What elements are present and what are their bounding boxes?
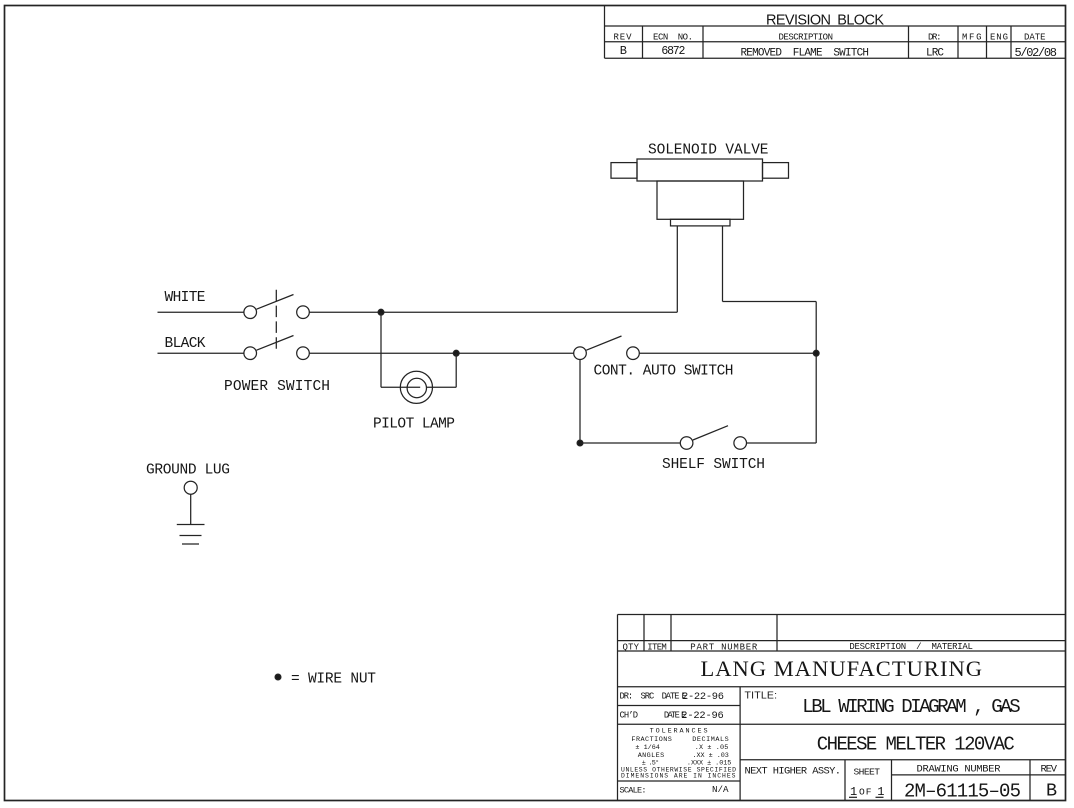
svg-text:.X ± .05: .X ± .05: [695, 744, 729, 752]
svg-text:DESCRIPTION: DESCRIPTION: [779, 33, 834, 43]
svg-text:DATE: DATE: [664, 710, 680, 720]
wire: right vertical bus: [815, 302, 817, 444]
svg-text:PART NUMBER: PART NUMBER: [690, 643, 758, 653]
svg-text:GROUND LUG: GROUND LUG: [146, 463, 230, 479]
scale row: [620, 784, 729, 796]
wire: shelf line left segment: [580, 442, 680, 444]
wire: WHITE line left segment: [158, 311, 245, 313]
revision block header row text: [614, 33, 1046, 43]
svg-text:DR:: DR:: [928, 33, 942, 43]
svg-text:LRC: LRC: [926, 48, 944, 60]
svg-text:REMOVED FLAME SWITCH: REMOVED FLAME SWITCH: [741, 48, 870, 60]
parts list header text: [623, 642, 973, 653]
svg-text:PILOT LAMP: PILOT LAMP: [373, 416, 455, 432]
svg-text:DR: SRC DATE: DR: SRC DATE: [620, 691, 680, 701]
wire: ground lug lead: [190, 494, 192, 524]
svg-text:FRACTIONS: FRACTIONS: [631, 736, 672, 744]
wire: BLACK line left segment: [158, 352, 245, 354]
wire nut junction on WHITE line: [378, 309, 384, 315]
svg-text:DIMENSIONS ARE IN INCHES: DIMENSIONS ARE IN INCHES: [621, 772, 736, 779]
svg-text:LANG MANUFACTURING: LANG MANUFACTURING: [701, 656, 983, 681]
shelf switch S3: [680, 426, 746, 450]
ground symbol: [177, 525, 205, 545]
cont. auto switch S2: [574, 336, 640, 360]
svg-text:NEXT HIGHER ASSY.: NEXT HIGHER ASSY.: [745, 765, 842, 777]
title row: [745, 689, 1021, 755]
svg-text:B: B: [1046, 781, 1057, 802]
title block grid: [618, 615, 1066, 801]
wire: WHITE line right segment: [309, 311, 677, 313]
svg-text:LBL WIRING DIAGRAM , GAS: LBL WIRING DIAGRAM , GAS: [802, 696, 1021, 718]
svg-text:TITLE:: TITLE:: [745, 689, 778, 701]
svg-text:B: B: [620, 44, 627, 58]
tolerances block text: [621, 727, 736, 779]
pilot lamp DS1: [400, 371, 432, 403]
svg-text:CHEESE MELTER 120VAC: CHEESE MELTER 120VAC: [817, 733, 1015, 755]
wire: drop from cont. auto switch to shelf line: [579, 360, 581, 444]
svg-text:DECIMALS: DECIMALS: [692, 736, 729, 744]
power switch S1 (double pole): [244, 290, 309, 360]
wire: BLACK line right segment: [639, 352, 816, 354]
svg-text:DESCRIPTION / MATERIAL: DESCRIPTION / MATERIAL: [849, 642, 973, 652]
wire: BLACK line middle segment: [309, 352, 573, 354]
svg-text:CH’D: CH’D: [620, 710, 639, 720]
svg-text:DRAWING NUMBER: DRAWING NUMBER: [917, 764, 1001, 776]
solenoid valve SOL1: [611, 159, 789, 226]
wire: top-right horizontal jog: [723, 301, 817, 303]
svg-text:5/02/08: 5/02/08: [1015, 46, 1058, 60]
wire: shelf line right segment: [747, 442, 817, 444]
revision block data row text: [620, 44, 1057, 60]
svg-text:MFG: MFG: [962, 33, 982, 43]
wire: pilot lamp left drop: [380, 312, 382, 387]
svg-text:WHITE: WHITE: [165, 290, 206, 306]
wire nut legend dot: [275, 674, 281, 680]
svg-text:2-22-96: 2-22-96: [681, 710, 724, 722]
wire: pilot lamp right drop: [455, 353, 457, 387]
svg-text:SOLENOID VALVE: SOLENOID VALVE: [648, 143, 769, 159]
svg-text:QTY: QTY: [623, 643, 640, 653]
next higher assy / sheet / drawing number / rev: [745, 763, 1058, 802]
svg-text:POWER SWITCH: POWER SWITCH: [224, 379, 330, 395]
wire: solenoid left lead down to WHITE line: [676, 226, 678, 312]
svg-text:= WIRE NUT: = WIRE NUT: [291, 671, 376, 687]
svg-text:ITEM: ITEM: [647, 643, 667, 653]
drawn-by row: [620, 691, 725, 723]
wire: pilot lamp horizontal left: [381, 386, 420, 388]
svg-text:2-22-96: 2-22-96: [682, 691, 724, 703]
svg-text:SHELF SWITCH: SHELF SWITCH: [662, 457, 765, 473]
svg-text:REV: REV: [614, 33, 633, 43]
svg-text:OF: OF: [859, 786, 872, 797]
svg-text:REV: REV: [1041, 763, 1058, 775]
wire nut junction on BLACK line: [453, 350, 459, 356]
svg-text:± 1/64: ± 1/64: [635, 744, 660, 752]
svg-text:BLACK: BLACK: [165, 336, 206, 352]
svg-text:N/A: N/A: [712, 784, 729, 795]
wire nut junction at shelf line left: [577, 440, 583, 446]
svg-text:CONT. AUTO SWITCH: CONT. AUTO SWITCH: [594, 364, 734, 380]
ground lug terminal circle: [184, 481, 197, 494]
sheet number underlines: [849, 796, 857, 798]
svg-text:SCALE:: SCALE:: [620, 786, 647, 796]
revision block table: [605, 6, 1066, 59]
wire nut junction on BLACK line at right bus: [813, 350, 819, 356]
svg-text:TOLERANCES: TOLERANCES: [650, 727, 708, 735]
svg-text:DATE: DATE: [1024, 33, 1046, 43]
wire: solenoid right lead down: [722, 226, 724, 302]
svg-text:6872: 6872: [661, 45, 685, 58]
wire: pilot lamp horizontal right: [427, 386, 456, 388]
svg-text:ENG: ENG: [990, 33, 1008, 43]
svg-text:2M–61115–05: 2M–61115–05: [904, 781, 1021, 803]
svg-text:ECN NO.: ECN NO.: [653, 33, 693, 43]
svg-text:SHEET: SHEET: [854, 766, 881, 777]
svg-text:REVISION BLOCK: REVISION BLOCK: [766, 13, 884, 29]
